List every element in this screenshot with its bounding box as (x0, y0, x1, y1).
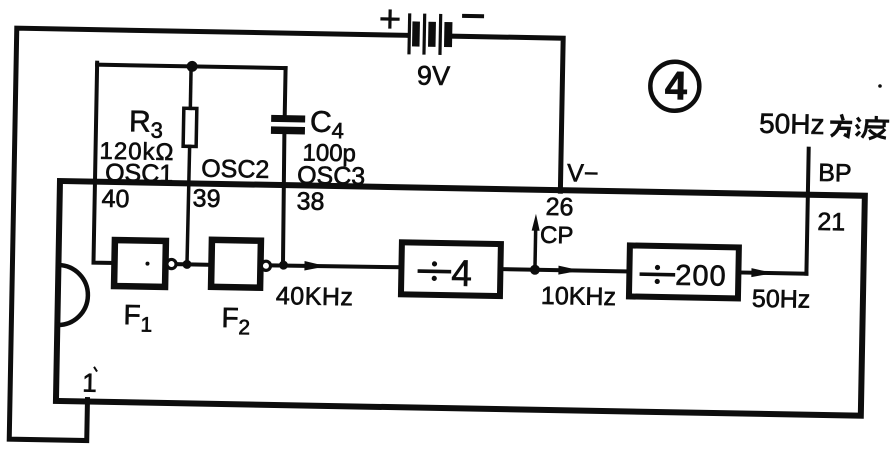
wire battery plus loop to pin 1 (9, 28, 405, 446)
battery BT1 9V (407, 13, 452, 55)
battery plus sign (382, 11, 398, 27)
svg-text:40: 40 (101, 185, 129, 214)
scan speck (878, 84, 882, 88)
node junction CP (530, 265, 540, 275)
figure number circle 4 (650, 61, 700, 111)
F1 output bubble (167, 259, 176, 268)
svg-text:CP: CP (540, 222, 574, 250)
arrow on 40KHz wire (304, 261, 326, 271)
CP arrow up (533, 228, 537, 270)
arrow on 50Hz wire (751, 268, 773, 277)
wire OSC1 pin 40 line (93, 63, 118, 263)
wire BP output (806, 149, 808, 274)
wire divider4 to divider200 (500, 269, 629, 271)
hanzi bo (856, 116, 889, 140)
svg-text:OSC2: OSC2 (201, 155, 270, 184)
capacitor C4 (283, 68, 288, 115)
wire F2 to divider 4 (271, 265, 401, 268)
IC body box (56, 181, 865, 416)
svg-text:38: 38 (296, 187, 324, 216)
flip-flop F1 (114, 240, 166, 287)
resistor R3 (189, 66, 193, 108)
wire F1 to F2 (176, 262, 211, 267)
arrow on 10KHz wire (558, 266, 580, 275)
svg-text:V−: V− (567, 159, 599, 188)
IC notch (57, 265, 88, 326)
svg-text:OSC3: OSC3 (297, 161, 366, 190)
svg-text:4: 4 (664, 64, 688, 108)
F2 output bubble (261, 261, 270, 270)
hanzi fang (830, 114, 852, 136)
divider block /4 (401, 242, 501, 296)
node junction OSC2 pin 39 on F1-F2 wire (182, 260, 191, 269)
wire divider200 to BP pin 21 (738, 272, 806, 273)
node junction top of R3 (187, 61, 198, 72)
svg-text:BP: BP (818, 159, 852, 188)
svg-text:39: 39 (192, 184, 220, 213)
svg-text:50Hz: 50Hz (752, 285, 811, 314)
svg-text:1: 1 (82, 367, 97, 397)
battery minus sign (464, 14, 482, 18)
svg-text:50Hz: 50Hz (759, 108, 825, 140)
flip-flop F2 (211, 240, 261, 288)
svg-text:10KHz: 10KHz (541, 282, 617, 311)
svg-text:9V: 9V (417, 61, 451, 92)
svg-text:200: 200 (675, 260, 727, 293)
svg-text:26: 26 (545, 193, 573, 222)
svg-text:OSC1: OSC1 (105, 159, 174, 188)
node junction OSC3 pin 38 on output wire (279, 261, 288, 270)
svg-text:21: 21 (817, 208, 845, 237)
svg-text:4: 4 (451, 253, 472, 294)
wire oscillator top rail (97, 65, 285, 68)
svg-text:40KHz: 40KHz (276, 282, 354, 311)
divider block /200 (629, 245, 739, 298)
wire battery minus to V- pin 26 (449, 36, 563, 191)
